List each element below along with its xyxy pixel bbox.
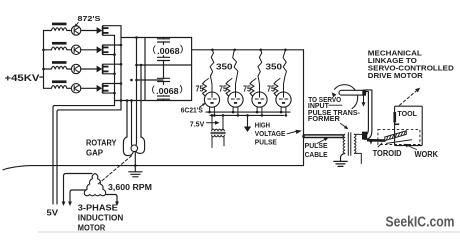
- svg-text:.0068: .0068: [156, 86, 179, 96]
- svg-text:.0068: .0068: [157, 46, 180, 56]
- svg-text:CABLE: CABLE: [305, 150, 328, 159]
- svg-text:WORK: WORK: [415, 150, 439, 159]
- svg-text:INDUCTION: INDUCTION: [78, 213, 124, 223]
- svg-text:350: 350: [266, 63, 283, 72]
- svg-text:TOROID: TOROID: [373, 149, 402, 158]
- svg-text:5V: 5V: [47, 208, 59, 218]
- svg-text:75: 75: [267, 84, 276, 93]
- svg-text:ROTARY: ROTARY: [86, 139, 117, 148]
- svg-text:872'S: 872'S: [78, 14, 101, 23]
- svg-text:75: 75: [219, 84, 228, 93]
- svg-text:3-PHASE: 3-PHASE: [78, 203, 118, 213]
- svg-text:TOOL: TOOL: [397, 109, 417, 118]
- svg-text:3,600 RPM: 3,600 RPM: [108, 183, 152, 192]
- svg-text:DRIVE MOTOR: DRIVE MOTOR: [368, 71, 424, 80]
- svg-text:GAP: GAP: [86, 148, 103, 157]
- svg-text:MOTOR: MOTOR: [78, 223, 106, 233]
- svg-text:75: 75: [243, 84, 252, 93]
- svg-text:SeekIC.com: SeekIC.com: [386, 215, 455, 231]
- svg-text:FORMER: FORMER: [308, 116, 340, 123]
- svg-text:+45KV: +45KV: [5, 73, 41, 84]
- svg-text:350: 350: [216, 63, 233, 72]
- svg-text:PULSE: PULSE: [305, 141, 328, 150]
- svg-text:7.5V: 7.5V: [190, 120, 205, 129]
- svg-text:PULSE: PULSE: [255, 137, 277, 146]
- svg-text:6C21'S: 6C21'S: [181, 105, 203, 114]
- svg-text:75: 75: [196, 84, 205, 93]
